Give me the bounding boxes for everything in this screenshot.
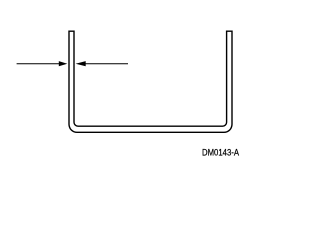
right thickness arrow (pointing left) bbox=[76, 61, 128, 66]
svg-text:DM0143-A: DM0143-A bbox=[202, 148, 239, 158]
left thickness arrow (pointing right) bbox=[17, 61, 68, 66]
U-channel cross-section outline bbox=[69, 31, 232, 132]
